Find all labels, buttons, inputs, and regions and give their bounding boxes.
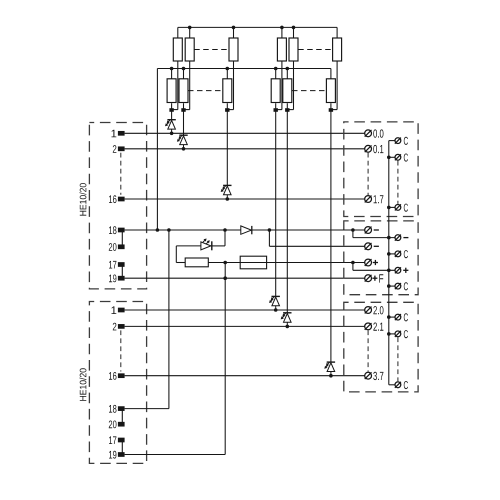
terminal C at y=207.4: [395, 204, 408, 212]
second supply bus: [157, 68, 331, 70]
junction top bus / R3: [232, 26, 236, 30]
dashed link row1 left group: [194, 49, 228, 51]
wire branch minus second row: [269, 230, 364, 246]
wire net minus (pin18): [125, 229, 241, 231]
terminal block C (dashed box): [344, 302, 418, 392]
fuse F1: [240, 256, 266, 269]
wire riser X2 pin18: [168, 230, 170, 409]
junction LED V2 / wire: [182, 147, 186, 151]
pin 18 X2: [109, 405, 125, 413]
junction LED V7 / wire: [329, 374, 333, 378]
pin 17 X1: [109, 261, 125, 269]
terminal block A (dashed box): [344, 122, 418, 217]
junction top bus / R10: [292, 26, 296, 30]
pin 20 X2: [109, 421, 125, 429]
junction C bus: [387, 252, 395, 256]
node pad channel 6: [329, 108, 333, 112]
terminal C at y=140.6: [395, 137, 408, 145]
wire net 3.7: [125, 375, 365, 377]
pin 19 X2: [109, 451, 125, 459]
node pad channel 1: [169, 108, 173, 112]
wire net 1.7: [125, 198, 365, 200]
junction top bus / R9: [280, 26, 284, 30]
wire branch plus to right column: [353, 263, 395, 273]
terminal 2.1: [365, 323, 384, 331]
dashed continuation terminals 2.1-3.7: [367, 330, 369, 371]
terminal 1.7: [365, 195, 384, 203]
resistor R8: [185, 258, 208, 267]
junction LED V5 / wire: [274, 308, 278, 312]
junction bus2 / R5: [170, 67, 174, 71]
terminal minus 2: [365, 243, 379, 250]
junction bus2 / R6: [182, 67, 186, 71]
wire LED V4 anode: [176, 246, 201, 263]
junction bus-left drop / minus wire: [156, 228, 160, 232]
junction LED V6 / wire: [286, 325, 290, 329]
node pad channel 4: [274, 108, 278, 112]
pin 1 X1: [112, 130, 125, 138]
junction plus row / pin19 riser: [223, 261, 227, 265]
resistor R6: [179, 69, 188, 111]
node pad channel 2: [181, 108, 185, 112]
LED V5: [269, 296, 280, 310]
connector X1 label HE10/20: [79, 183, 86, 216]
dashed continuation pin2-pin16 X2: [120, 330, 122, 371]
wire X2 pin18: [125, 408, 169, 410]
wire plus row: [208, 262, 364, 264]
junction X2 pin18 riser / minus wire: [167, 228, 171, 232]
terminal C at y=157.3: [395, 154, 408, 162]
LED V3: [221, 185, 232, 199]
junction bus2 / R7: [226, 67, 230, 71]
junction C bus: [387, 206, 395, 210]
connector X2 HE10/20 (dashed box): [89, 302, 146, 464]
junction minus branch: [268, 228, 272, 232]
resistor R7: [223, 69, 232, 111]
top supply bus: [178, 26, 337, 28]
node pad channel 5: [285, 108, 289, 112]
junction LED V3 / wire: [226, 197, 230, 201]
terminal 0.0: [365, 129, 384, 137]
dashed link row2 right group: [292, 90, 326, 92]
resistor R11: [331, 27, 342, 109]
dashed continuation pin2-pin16 X1: [120, 153, 122, 195]
terminal C at y=317.1: [395, 313, 408, 321]
resistor R1: [172, 27, 183, 109]
dashed continuation terminals 0.1-1.7: [367, 153, 369, 195]
terminal C at y=384.8: [395, 381, 408, 389]
pin 16 X2: [109, 372, 125, 380]
connector X2 label HE10/20: [79, 368, 86, 401]
junction C bus: [387, 315, 395, 319]
wire feed channel 2: [183, 110, 185, 135]
C bus vertical: [389, 141, 395, 385]
stub pin17-pin19 X2: [121, 440, 123, 455]
junction minus terminal branch: [351, 228, 355, 232]
resistor R5: [167, 69, 176, 111]
pin 20 X1: [109, 243, 125, 251]
junction plus terminal branch: [351, 261, 355, 265]
pin 19 X1: [109, 275, 125, 283]
terminal block B (dashed box): [344, 221, 418, 295]
wire riser X2 pin19: [224, 263, 226, 455]
terminal plus: [365, 259, 378, 266]
wire branch minus to right column: [353, 230, 395, 239]
junction C bus: [387, 156, 395, 160]
terminal minus 1: [365, 227, 379, 234]
wire net +F (pin19): [125, 277, 365, 279]
LED V4 (system indicator): [201, 239, 212, 251]
dashed continuation C terminals block C: [397, 337, 399, 381]
LED V7: [324, 362, 335, 376]
wire feed channel 5: [286, 110, 288, 313]
diode V9: [241, 226, 252, 234]
junction bus2 / R14: [286, 67, 290, 71]
LED V2: [177, 135, 188, 149]
junction bus2 / R13: [274, 67, 278, 71]
wire feed channel 4: [275, 110, 277, 296]
pin 16 X1: [109, 195, 125, 203]
wire left drop from bus2: [156, 69, 158, 231]
wire net 2.1: [125, 325, 365, 327]
stub pin18-pin20 X2: [121, 409, 123, 425]
LED V4 cathode riser: [212, 230, 225, 246]
junction top bus / R2: [188, 26, 192, 30]
dashed link row2 left group: [188, 90, 223, 92]
pin 17 X2: [109, 436, 125, 444]
terminal 3.7: [365, 372, 384, 380]
LED V1: [165, 120, 176, 134]
wire feed channel 3: [226, 110, 228, 185]
wire X2 pin19: [125, 454, 226, 456]
LED V6: [281, 313, 292, 327]
dashed continuation C terminals block A: [397, 161, 399, 204]
resistor R15: [326, 69, 335, 111]
wire net 2.0: [125, 309, 365, 311]
terminal 2.0: [365, 306, 384, 314]
resistor R10: [287, 27, 298, 109]
terminal plus right: [395, 267, 409, 273]
terminal C at y=286.1: [395, 282, 408, 290]
pin 2 X2: [113, 323, 125, 331]
junction +F wire / X2 pin19 riser: [223, 276, 227, 280]
terminal 0.1: [365, 145, 384, 153]
resistor R2: [184, 27, 195, 109]
pin 18 X1: [109, 226, 125, 234]
terminal minus right: [395, 235, 409, 241]
stub pin18-pin20 X1: [121, 230, 123, 247]
junction C bus: [387, 332, 395, 336]
resistor R14: [283, 69, 292, 111]
dashed link row1 right group: [298, 49, 332, 51]
wire feed channel 6: [330, 110, 332, 362]
terminal C at y=333.9: [395, 330, 408, 338]
junction C bus: [387, 284, 395, 288]
resistor R13: [271, 69, 280, 111]
resistor R3: [227, 27, 238, 109]
connector X1 HE10/20 (dashed box): [89, 123, 146, 289]
terminal C at y=253.9: [395, 250, 408, 258]
terminal +F: [365, 274, 384, 282]
wire feed channel 1: [171, 110, 173, 120]
wire net 0.1: [125, 148, 365, 150]
resistor R9: [276, 27, 287, 109]
junction LED V1 / wire: [170, 132, 174, 136]
stub pin17-pin19 X1: [121, 265, 123, 279]
pin 2 X1: [113, 145, 125, 153]
wire net 0.0: [125, 132, 365, 134]
junction LED V4 riser / minus wire: [223, 228, 227, 232]
node pad channel 3: [225, 108, 229, 112]
pin 1 X2: [112, 306, 125, 314]
